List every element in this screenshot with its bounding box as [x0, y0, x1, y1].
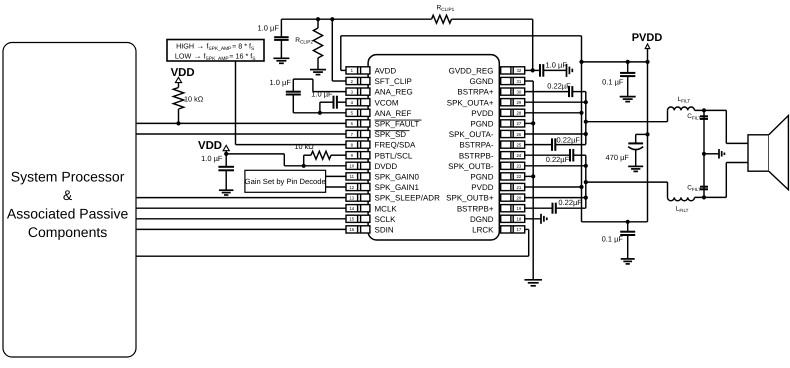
svg-text:27: 27	[517, 121, 522, 126]
svg-text:ANA_REG: ANA_REG	[375, 88, 413, 97]
svg-text:Associated Passive: Associated Passive	[7, 205, 129, 221]
svg-text:Components: Components	[28, 224, 107, 240]
svg-text:17: 17	[517, 227, 522, 232]
svg-text:PGND: PGND	[470, 173, 493, 182]
svg-text:0.1 µF: 0.1 µF	[602, 235, 624, 244]
svg-text:32: 32	[517, 68, 522, 73]
svg-text:10 kΩ: 10 kΩ	[295, 142, 315, 151]
svg-text:28: 28	[517, 111, 522, 116]
svg-text:10: 10	[349, 164, 354, 169]
svg-text:16: 16	[349, 227, 354, 232]
svg-text:GGND: GGND	[470, 77, 494, 86]
svg-text:SPK_OUTA-: SPK_OUTA-	[449, 130, 494, 139]
svg-text:SPK_OUTB+: SPK_OUTB+	[446, 194, 494, 203]
svg-text:26: 26	[517, 132, 522, 137]
svg-text:DVDD: DVDD	[375, 162, 398, 171]
svg-text:DGND: DGND	[470, 215, 494, 224]
svg-text:LRCK: LRCK	[472, 226, 494, 235]
svg-text:1.0 µF: 1.0 µF	[258, 23, 280, 32]
svg-text:BSTRPB+: BSTRPB+	[457, 204, 494, 213]
svg-text:VCOM: VCOM	[375, 98, 399, 107]
svg-text:0.1 µF: 0.1 µF	[602, 77, 624, 86]
svg-text:SPK_GAIN1: SPK_GAIN1	[375, 183, 420, 192]
svg-text:14: 14	[349, 206, 354, 211]
svg-text:13: 13	[349, 195, 354, 200]
svg-text:29: 29	[517, 100, 522, 105]
svg-text:BSTRPA-: BSTRPA-	[459, 141, 493, 150]
svg-text:30: 30	[517, 89, 522, 94]
svg-text:470 µF: 470 µF	[606, 153, 630, 162]
svg-text:24: 24	[517, 153, 522, 158]
svg-text:19: 19	[517, 206, 522, 211]
svg-text:1.0 µF: 1.0 µF	[201, 154, 223, 163]
svg-text:SPK_OUTA+: SPK_OUTA+	[447, 98, 494, 107]
svg-text:SFT_CLIP: SFT_CLIP	[375, 77, 412, 86]
svg-text:11: 11	[350, 174, 355, 179]
svg-text:SCLK: SCLK	[375, 215, 397, 224]
svg-text:SPK_SD: SPK_SD	[375, 130, 407, 139]
svg-text:PVDD: PVDD	[632, 32, 663, 44]
svg-text:PVDD: PVDD	[471, 183, 493, 192]
svg-text:21: 21	[517, 185, 522, 190]
svg-text:SDIN: SDIN	[375, 226, 394, 235]
svg-text:PVDD: PVDD	[471, 109, 493, 118]
svg-text:SPK_FAULT: SPK_FAULT	[375, 120, 420, 129]
svg-text:1.0 µF: 1.0 µF	[270, 78, 292, 87]
svg-text:SPK_GAIN0: SPK_GAIN0	[375, 173, 420, 182]
svg-text:25: 25	[517, 142, 522, 147]
svg-text:VDD: VDD	[171, 67, 195, 79]
svg-text:23: 23	[517, 164, 522, 169]
svg-text:Gain Set by Pin Decode: Gain Set by Pin Decode	[245, 177, 326, 186]
svg-text:10 kΩ: 10 kΩ	[184, 94, 204, 103]
svg-text:0.22µF: 0.22µF	[557, 135, 581, 144]
svg-text:BSTRPA+: BSTRPA+	[457, 88, 493, 97]
svg-text:18: 18	[517, 217, 522, 222]
svg-text:0.22µF: 0.22µF	[546, 155, 570, 164]
svg-text:0.22µF: 0.22µF	[547, 82, 571, 91]
svg-text:SPK_SLEEP/ADR: SPK_SLEEP/ADR	[375, 194, 441, 203]
svg-text:GVDD_REG: GVDD_REG	[449, 67, 494, 76]
svg-text:SPK_OUTB-: SPK_OUTB-	[448, 162, 494, 171]
svg-text:1.0 µF: 1.0 µF	[311, 90, 333, 99]
svg-text:ANA_REF: ANA_REF	[375, 109, 412, 118]
svg-text:PGND: PGND	[470, 120, 493, 129]
svg-text:System Processor: System Processor	[11, 168, 125, 184]
svg-text:1.0 µF: 1.0 µF	[546, 61, 568, 70]
svg-text:FREQ/SDA: FREQ/SDA	[375, 141, 417, 150]
svg-text:20: 20	[517, 195, 522, 200]
svg-text:0.22µF: 0.22µF	[558, 198, 582, 207]
svg-text:BSTRPB-: BSTRPB-	[459, 151, 494, 160]
svg-text:PBTL/SCL: PBTL/SCL	[375, 151, 413, 160]
svg-text:MCLK: MCLK	[375, 204, 398, 213]
svg-text:15: 15	[349, 217, 354, 222]
svg-text:&: &	[63, 187, 73, 203]
svg-text:VDD: VDD	[198, 140, 222, 152]
svg-text:22: 22	[517, 174, 522, 179]
svg-text:12: 12	[349, 185, 354, 190]
svg-text:31: 31	[517, 79, 522, 84]
svg-text:AVDD: AVDD	[375, 67, 397, 76]
